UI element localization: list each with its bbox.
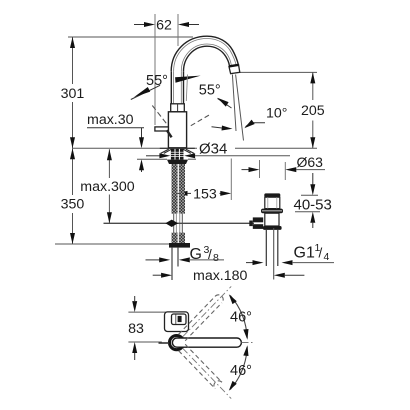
svg-text:62: 62 <box>156 18 172 34</box>
svg-text:G1: G1 <box>294 245 315 262</box>
top-view spout tube solid (capsule) <box>172 338 241 347</box>
svg-text:max.30: max.30 <box>87 112 134 128</box>
svg-text:G: G <box>190 246 202 263</box>
svg-text:Ø63: Ø63 <box>297 154 324 170</box>
label G 3/8 <box>146 244 225 264</box>
label G1 1/4 <box>246 242 334 265</box>
dimension max.30 <box>87 112 144 172</box>
spout mousseur <box>229 65 240 74</box>
deck bottom line <box>137 158 167 160</box>
supply pipe tails G3/8 <box>172 248 178 280</box>
swivel arc with arrows <box>229 294 249 391</box>
top-view handle <box>172 314 187 325</box>
dimension 83 <box>128 296 167 360</box>
dashed spout position up <box>179 295 224 341</box>
lower flange <box>263 226 282 230</box>
svg-text:205: 205 <box>301 103 325 119</box>
tick left of circle <box>159 342 170 344</box>
faucet body <box>168 112 186 148</box>
mounting nut <box>167 160 188 164</box>
svg-text:Ø34: Ø34 <box>199 141 227 158</box>
dimension max.300 <box>80 149 135 223</box>
dimension diameter 34 <box>146 141 290 159</box>
dimension diameter 63 <box>242 154 326 180</box>
tailpiece <box>265 230 267 266</box>
pop-up waste assembly <box>249 193 283 279</box>
pull rod <box>273 228 275 280</box>
dimension 205 <box>240 72 325 148</box>
svg-text:8: 8 <box>213 252 219 264</box>
svg-text:40-53: 40-53 <box>294 196 332 213</box>
dashed spout position down <box>179 344 222 388</box>
top-view swivel circle <box>170 336 184 350</box>
svg-text:301: 301 <box>61 86 85 102</box>
hose end fittings <box>169 243 190 248</box>
deck top line <box>73 147 198 149</box>
svg-text:46°: 46° <box>230 310 252 326</box>
faucet collar <box>171 104 185 112</box>
svg-text:55°: 55° <box>199 83 221 99</box>
spout gooseneck arc <box>171 36 238 71</box>
threaded shank through deck <box>171 149 184 160</box>
upper flange <box>261 209 283 214</box>
svg-text:10°: 10° <box>266 106 287 122</box>
lever handle <box>155 127 172 137</box>
dimension 350 <box>55 148 171 244</box>
svg-text:max.300: max.300 <box>80 179 135 195</box>
dimension 40-53 <box>294 173 332 228</box>
dimension max.180 <box>153 268 305 284</box>
svg-text:4: 4 <box>324 251 330 263</box>
dimension 62 <box>134 14 199 125</box>
angle 10 deg label <box>244 106 287 129</box>
angle 55 deg left <box>131 73 201 124</box>
water stream lines <box>232 75 243 141</box>
faucet riser tube <box>171 71 183 104</box>
top reference line <box>68 36 193 38</box>
svg-text:83: 83 <box>128 321 144 337</box>
angle 55 deg right <box>191 83 233 131</box>
mid body <box>265 213 279 226</box>
top-view body <box>165 312 189 332</box>
pop-up rod (horizontal) <box>104 222 255 224</box>
svg-text:46°: 46° <box>230 363 252 379</box>
escutcheon on deck <box>160 148 195 153</box>
svg-text:/: / <box>208 247 212 262</box>
rod clamp <box>253 217 263 222</box>
dimension 301 <box>61 37 85 148</box>
svg-text:/: / <box>319 246 323 261</box>
svg-text:max.180: max.180 <box>193 268 248 284</box>
knob cap <box>264 193 280 197</box>
dash-dot centerlines <box>183 286 253 398</box>
svg-text:350: 350 <box>61 197 85 213</box>
upper cylinder <box>265 197 280 208</box>
dimension 153 <box>172 159 231 203</box>
svg-text:153: 153 <box>193 186 217 202</box>
rod coupling diamond at faucet <box>165 220 178 227</box>
